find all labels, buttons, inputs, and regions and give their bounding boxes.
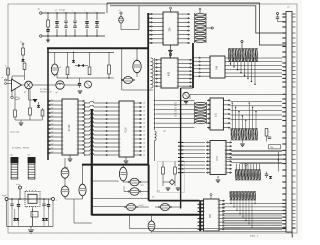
wire top rail A (107, 3, 286, 45)
ground Q4 (184, 101, 188, 103)
ground regulator (30, 226, 32, 228)
wire C7 to bus (121, 29, 139, 31)
wire misc2 (108, 74, 110, 78)
RN4 pin ups (232, 102, 257, 128)
node dots U1-left (147, 13, 149, 43)
node column x154 (154, 58, 156, 130)
gate G6 (128, 178, 141, 186)
power rail bottom (42, 35, 105, 37)
svg-text:fs2: fs2 (152, 197, 154, 199)
bus V3 vertical (192, 43, 194, 88)
capacitor C14 (266, 172, 268, 175)
ground Y1b (176, 187, 181, 189)
U4 ground (69, 155, 71, 158)
capacitor C1 (46, 11, 50, 37)
svg-text:d0: d0 (143, 147, 145, 149)
svg-text:q2: q2 (56, 92, 58, 94)
diode D4 (72, 60, 75, 63)
transistor Q5 (133, 59, 141, 74)
label box 74LS (269, 145, 281, 149)
connector JP1 (11, 155, 19, 180)
wire opamp down (11, 91, 13, 96)
V4 pin labels (174, 103, 177, 118)
bus V0 left vertical (47, 48, 49, 160)
crystal Y1 (169, 180, 174, 185)
svg-text:27128: 27128 (69, 124, 71, 131)
svg-text:wave amp: wave amp (10, 132, 20, 134)
svg-text:d0: d0 (143, 151, 145, 153)
bus V4 vertical (180, 88, 182, 209)
wire U8 right pins (231, 101, 283, 119)
terminal J2 (40, 35, 42, 37)
svg-text:a out: a out (16, 183, 20, 186)
U11 right wires (225, 215, 282, 229)
ground C9 (78, 90, 83, 92)
bus H1 top horizontal (47, 47, 149, 49)
svg-text:a12: a12 (51, 139, 54, 141)
svg-text:6116: 6116 (126, 127, 128, 133)
wire U2 to V3 (192, 57, 198, 77)
svg-text:k1a: k1a (28, 155, 31, 157)
terminal T_V (52, 198, 55, 201)
IC U5 (105, 101, 142, 157)
capacitor C15 (268, 136, 271, 138)
svg-text:d0: d0 (143, 123, 145, 125)
svg-text:d0: d0 (143, 119, 145, 121)
terminal J1 (40, 12, 42, 14)
svg-text:c7: c7 (119, 10, 121, 12)
wire Q5-G1 (136, 73, 138, 77)
diode D1 (22, 43, 24, 45)
U1 top pin (170, 9, 172, 12)
node column x84 (84, 103, 86, 112)
capacitor C4 (73, 11, 77, 37)
connector J3 (286, 7, 292, 238)
svg-text:d0: d0 (143, 115, 145, 117)
wire G1 left (122, 79, 123, 81)
wire G3 out (64, 197, 66, 200)
svg-text:a12: a12 (51, 99, 54, 101)
capacitor C16 (276, 12, 278, 14)
wire y198 (92, 197, 148, 199)
wire regulator rail (8, 198, 52, 200)
capacitor C7 (119, 10, 124, 30)
IC U11 (201, 199, 226, 231)
diode pair D5 (78, 64, 81, 67)
terminal T_OUT (19, 186, 22, 189)
svg-text:in: in (2, 77, 3, 79)
rail y52 (48, 51, 114, 53)
wire bottom-right bundle (222, 204, 286, 228)
svg-text:a12: a12 (51, 151, 54, 153)
capacitor C12 (43, 199, 45, 204)
IC U3 (155, 58, 192, 88)
gate G8 (125, 204, 138, 211)
resistor R10 (162, 167, 165, 174)
wire RN2 pin drops (230, 62, 256, 86)
svg-text:74A: 74A (216, 65, 219, 70)
wire fb (12, 75, 25, 77)
U11 left bundle dashes (198, 201, 204, 229)
svg-text:a12: a12 (51, 111, 54, 113)
svg-text:a12: a12 (51, 107, 54, 109)
node loops on V2 (151, 58, 154, 88)
wire G2-G3 (64, 178, 66, 186)
resistor network RN4 (231, 129, 259, 141)
wire bottom long2 (152, 230, 287, 232)
IC U1 (149, 12, 190, 45)
wire Q1 down (28, 89, 30, 100)
wire bundle U4-U5 (84, 101, 105, 155)
bus pin-bundle U11 (199, 201, 201, 231)
svg-text:PIO: PIO (210, 214, 212, 218)
svg-text:a12: a12 (51, 131, 54, 133)
wire G4 top (82, 165, 84, 185)
wire misc1 (56, 73, 58, 78)
svg-text:+5v: +5v (37, 9, 40, 11)
connector JP2 (28, 155, 36, 180)
svg-text:Z8A: Z8A (169, 27, 172, 32)
terminal T_GND (5, 198, 8, 201)
capacitor C10 (11, 199, 13, 204)
IC U4 (47, 99, 85, 155)
wire bottom long1 (129, 215, 131, 229)
svg-text:b.in: b.in (20, 42, 23, 44)
RN1 terminal (206, 27, 211, 29)
IC U2 (198, 56, 225, 78)
svg-text:a12: a12 (51, 147, 54, 149)
svg-text:4084 - 2: 4084 - 2 (250, 236, 259, 238)
IC U8 (207, 98, 231, 130)
resistor R7 (88, 67, 91, 75)
resistor network RN2 (228, 49, 258, 62)
wire opamp in (7, 79, 12, 82)
gate G1 (122, 77, 135, 84)
svg-text:PROM 27128: PROM 27128 (40, 91, 51, 93)
RN5 terminal (245, 163, 247, 165)
gate G7 (128, 188, 141, 196)
svg-text:c2 a1/2: c2 a1/2 (138, 205, 143, 207)
wire drop x121 (121, 48, 123, 90)
resistor R3 (14, 110, 17, 117)
svg-text:d0: d0 (143, 103, 145, 105)
svg-text:LS1: LS1 (216, 112, 218, 117)
transistor Q1 (25, 81, 33, 89)
wire vr down (32, 207, 34, 211)
U4 left pin labels (51, 99, 54, 153)
transistor Q2 (56, 81, 64, 89)
bus V5 vertical (148, 165, 150, 201)
U1 ground pin (170, 45, 172, 50)
svg-text:d0: d0 (143, 131, 145, 133)
diode D7 (16, 218, 19, 221)
IC U9 (206, 141, 232, 175)
svg-text:K1 RS/EC - PROM: K1 RS/EC - PROM (12, 148, 29, 150)
transistor Q3 (85, 81, 92, 88)
gate G4 (79, 183, 86, 198)
connector J3 ticks (282, 13, 296, 229)
diode D6 (13, 218, 16, 221)
resistor R8 (108, 65, 111, 74)
bus V2 vertical (147, 13, 149, 165)
svg-text:q1: q1 (24, 92, 26, 94)
resistor R4 (29, 108, 32, 115)
U9 left bundle (178, 142, 205, 172)
resistor R6 (66, 67, 69, 75)
svg-text:a12: a12 (51, 143, 54, 145)
ground Y1a (166, 187, 171, 189)
RN4 ground (242, 140, 244, 143)
wire RN2 stub (241, 42, 243, 43)
wire y94 (190, 93, 286, 95)
wire U8 left links (154, 100, 195, 129)
svg-text:+v: +v (56, 200, 58, 202)
wire Q2 right (64, 84, 79, 86)
transistor Q4 (183, 92, 189, 98)
capacitor C11 (18, 199, 20, 204)
gate G10 (159, 204, 172, 211)
node dots V3 (192, 59, 194, 87)
resistor network RN1 (195, 13, 207, 43)
U5 ground (125, 157, 127, 160)
capacitor C8 oval (51, 63, 58, 77)
gate G2 (61, 166, 69, 179)
svg-text:74ls: 74ls (270, 147, 273, 149)
coil jump on wire (155, 131, 157, 141)
resistor network RN3 (195, 102, 207, 124)
power rail top (42, 12, 105, 14)
capacitor C5 (85, 11, 89, 37)
resistor R9 box (31, 212, 38, 218)
ground caps (47, 36, 49, 40)
bus H4 bottom horizontal (92, 214, 201, 216)
resistor R11 (174, 167, 177, 174)
U3 top pin (169, 52, 171, 58)
svg-text:x-tal: x-tal (157, 190, 161, 193)
svg-text:40B: 40B (169, 71, 171, 76)
svg-text:a12: a12 (51, 103, 54, 105)
U11 top stub (210, 196, 212, 200)
svg-text:r9: r9 (32, 214, 34, 217)
diode D9 (45, 218, 48, 221)
gate G3 (61, 185, 69, 198)
svg-text:d0: d0 (143, 143, 145, 145)
wire RN1 top (199, 10, 201, 13)
resistor R1 (7, 68, 10, 75)
svg-text:r1: r1 (5, 65, 7, 68)
svg-text:c8: c8 (59, 67, 61, 69)
op-amp U6 (12, 79, 22, 91)
wire gate links (92, 165, 181, 232)
gate G5 (119, 166, 127, 183)
resistor network RN5 (235, 164, 261, 181)
bus V1 main vertical (91, 109, 93, 216)
wire Q5 top (136, 48, 138, 60)
capacitor C9 (78, 83, 81, 84)
wire top rail B (110, 6, 286, 33)
svg-text:a12: a12 (51, 123, 54, 125)
wire U2 right pins (225, 58, 282, 77)
svg-text:k1a: k1a (11, 155, 14, 157)
bus H3 to U11 (149, 200, 200, 202)
diode D3 (37, 105, 40, 108)
RN6 pin drops (230, 200, 255, 228)
svg-text:d0: d0 (143, 155, 145, 157)
svg-text:d0: d0 (143, 135, 145, 137)
diode D10 (269, 176, 272, 179)
U9 ground (217, 176, 219, 179)
svg-text:a gnd: a gnd (2, 195, 6, 197)
capacitor C6 (95, 11, 99, 37)
diode D2 (33, 99, 38, 103)
svg-text:p1: p1 (288, 7, 290, 9)
transistor Q6 (148, 220, 155, 233)
svg-text:a12: a12 (51, 127, 54, 129)
wire x278 (277, 152, 279, 172)
svg-text:a1/2: a1/2 (141, 184, 144, 186)
bus H2 middle horizontal (82, 164, 149, 166)
svg-text:d0: d0 (143, 107, 145, 109)
wire G4 bottom (82, 196, 84, 199)
rail regulator bottom (7, 225, 54, 227)
resistor R12 (265, 129, 268, 137)
svg-text:d0: d0 (143, 127, 145, 129)
resistor network RN6 (230, 192, 257, 201)
wire lower analog (15, 119, 43, 121)
RN2 top pin (241, 43, 243, 49)
ground analog (20, 120, 22, 122)
svg-text:a12: a12 (51, 119, 54, 121)
capacitor C2 (55, 11, 59, 37)
oscillator box (158, 162, 185, 193)
diode D8 (42, 218, 45, 221)
capacitor C13 (48, 199, 50, 204)
rail y78 (57, 77, 114, 79)
svg-text:ab1: ab1 (174, 116, 177, 118)
resistor R5 (41, 110, 44, 116)
terminal P1 (11, 96, 13, 98)
U9 right wires (231, 151, 282, 162)
svg-text:d0: d0 (143, 139, 145, 141)
wire opamp-Q1 (22, 84, 25, 86)
wire Q1-Q2 (32, 84, 56, 86)
svg-text:epro: epro (163, 131, 166, 133)
svg-text:a12: a12 (51, 115, 54, 117)
voltage regulator U7 (25, 190, 40, 207)
svg-text:d0: d0 (143, 111, 145, 113)
capacitor C3 (64, 11, 68, 37)
wire right mid links (225, 150, 286, 163)
svg-text:CT2: CT2 (217, 156, 219, 161)
svg-text:a12: a12 (51, 135, 54, 137)
U5 right pin labels (143, 103, 145, 157)
resistor R2 (23, 63, 26, 70)
